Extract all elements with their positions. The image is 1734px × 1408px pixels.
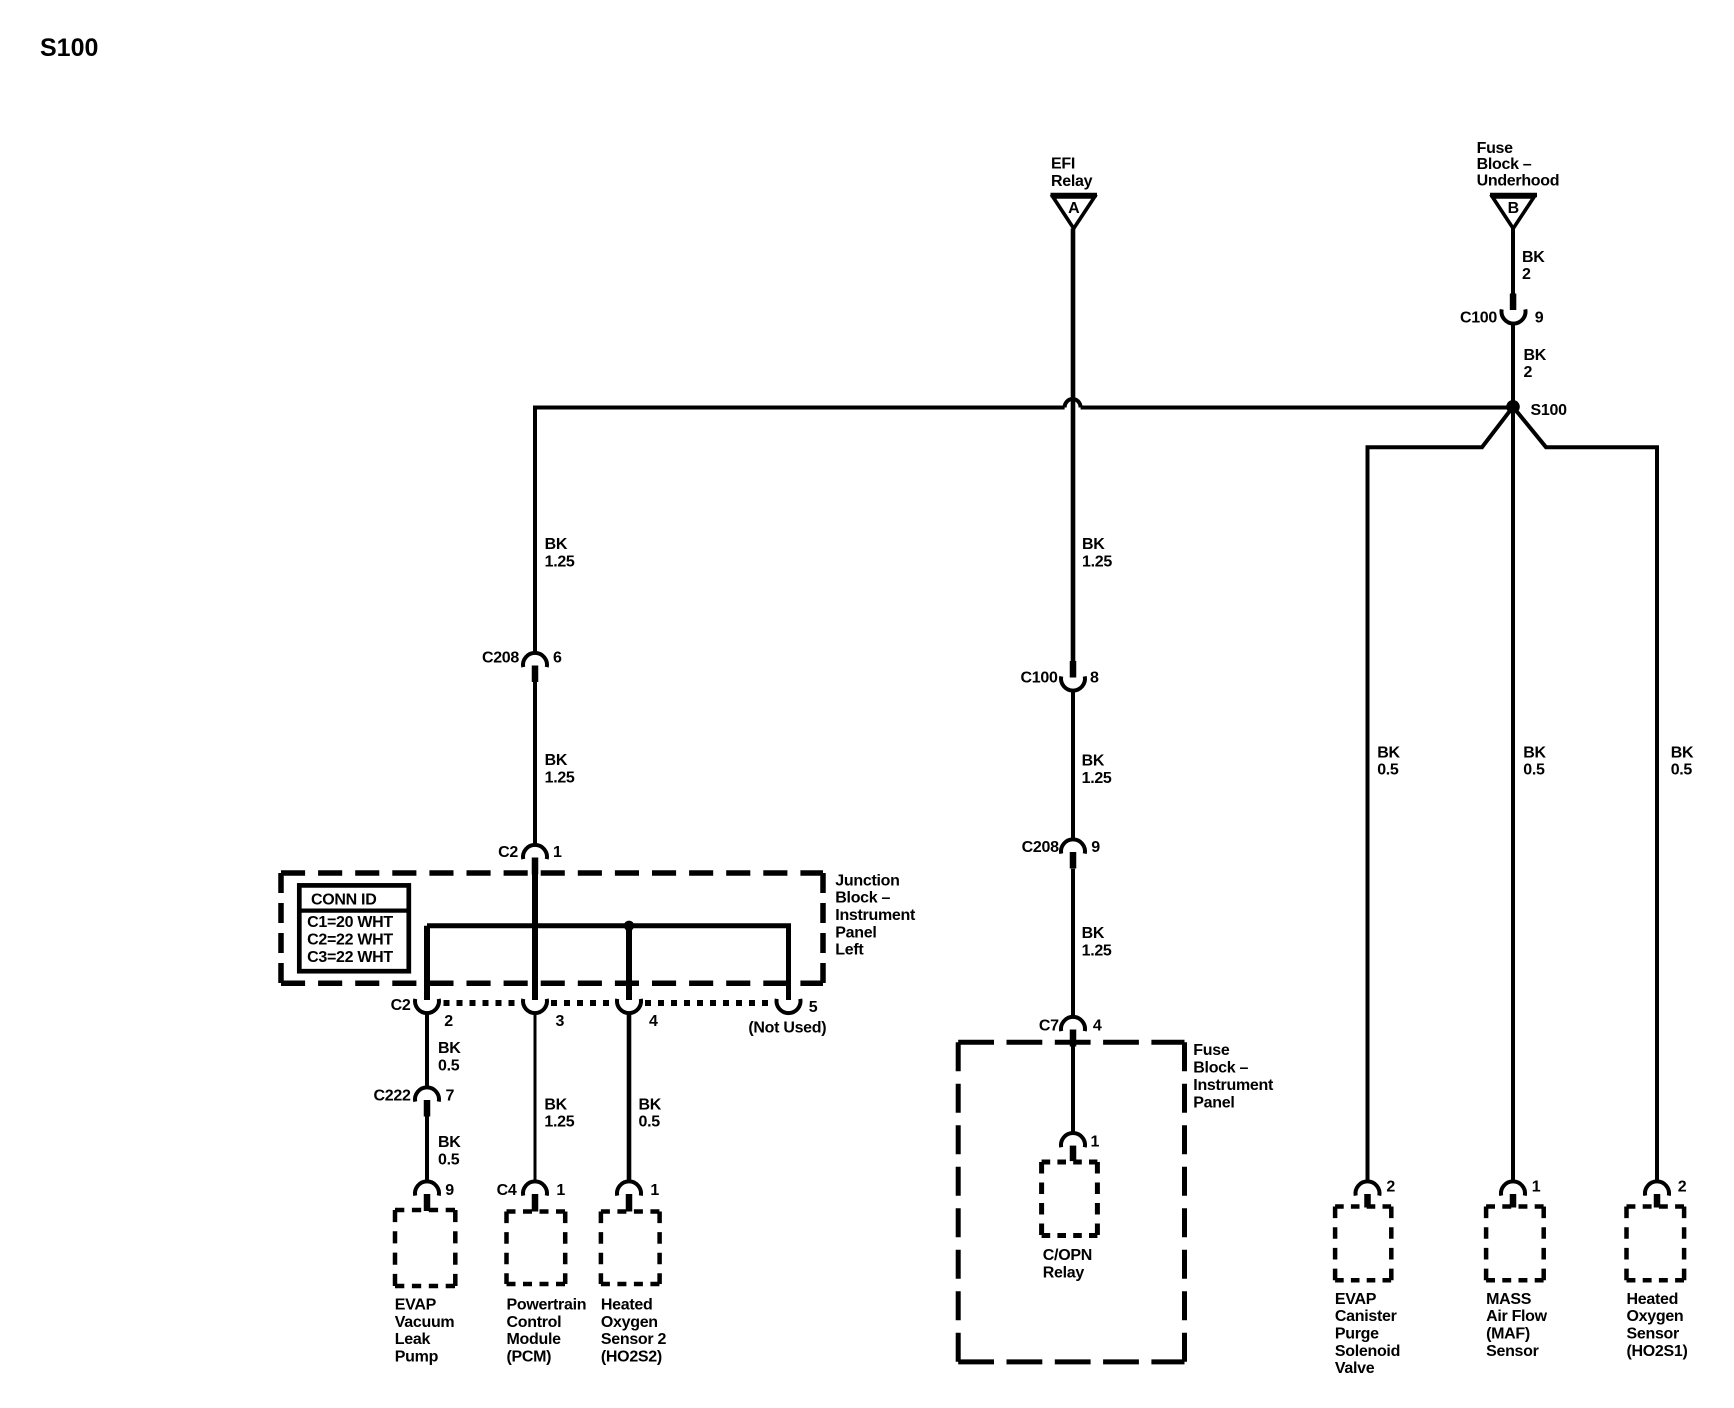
ground symbol A (EFI Relay) xyxy=(1051,195,1098,229)
svg-text:BK: BK xyxy=(438,1134,461,1151)
svg-text:Oxygen: Oxygen xyxy=(1627,1308,1684,1325)
component box HO2S2 xyxy=(601,1212,660,1285)
connector C208 pin 6 xyxy=(482,650,562,683)
svg-text:BK: BK xyxy=(1671,744,1694,761)
wire C222-7 to EVAP pump pin 9 xyxy=(425,1117,429,1183)
connector C2 pin 3 xyxy=(523,999,547,1013)
fuse block instrument panel dashed box xyxy=(958,1042,1184,1362)
svg-text:0.5: 0.5 xyxy=(438,1151,460,1168)
wire junction block internal bus xyxy=(427,926,789,1000)
component box EVAP canister purge solenoid valve xyxy=(1335,1207,1391,1281)
label BK 2 xyxy=(1524,347,1547,381)
wire S100 left diagonal branch to EVAP canister purge valve xyxy=(1368,407,1514,1182)
label BK 0.5 xyxy=(639,1096,662,1130)
connector C2 pin 2 xyxy=(415,999,439,1013)
wire pin 4 to HO2S2 pin 1 xyxy=(627,1013,632,1182)
svg-text:C100: C100 xyxy=(1460,310,1497,327)
svg-text:Fuse: Fuse xyxy=(1477,140,1514,157)
svg-text:S100: S100 xyxy=(1531,402,1568,419)
svg-text:BK: BK xyxy=(545,752,568,769)
label BK 1.25 (left branch lower) xyxy=(545,752,575,786)
svg-text:1.25: 1.25 xyxy=(1082,942,1112,959)
component box MAF sensor xyxy=(1486,1207,1544,1281)
svg-text:5: 5 xyxy=(809,999,818,1016)
svg-text:1.25: 1.25 xyxy=(1082,770,1112,787)
svg-text:3: 3 xyxy=(556,1013,565,1030)
svg-text:Sensor: Sensor xyxy=(1627,1326,1680,1343)
label BK 0.5 xyxy=(438,1134,461,1168)
label C/OPN Relay xyxy=(1043,1247,1092,1281)
junction dot on bus at pin 4 xyxy=(624,921,634,931)
svg-text:1.25: 1.25 xyxy=(1082,553,1112,570)
svg-text:C3=22 WHT: C3=22 WHT xyxy=(307,949,393,966)
label MASS Air Flow (MAF) Sensor xyxy=(1486,1291,1548,1360)
svg-text:Relay: Relay xyxy=(1043,1264,1085,1281)
wire EFI relay vertical xyxy=(1071,229,1076,662)
label EVAP Vacuum Leak Pump xyxy=(395,1297,455,1366)
svg-text:Fuse: Fuse xyxy=(1193,1042,1230,1059)
svg-text:BK: BK xyxy=(438,1040,461,1057)
svg-text:Panel: Panel xyxy=(835,924,876,941)
svg-text:0.5: 0.5 xyxy=(1377,762,1399,779)
svg-text:1.25: 1.25 xyxy=(544,1114,574,1131)
junction block dashed box xyxy=(281,873,823,983)
connector C4 pin 1 (PCM) xyxy=(497,1181,566,1211)
svg-text:0.5: 0.5 xyxy=(639,1114,661,1131)
label Fuse Block - Instrument Panel xyxy=(1193,1042,1274,1112)
svg-text:Block –: Block – xyxy=(1477,156,1532,173)
wire S100 right diagonal branch to HO2S1 xyxy=(1513,407,1657,1182)
svg-text:BK: BK xyxy=(1524,347,1547,364)
svg-text:0.5: 0.5 xyxy=(1671,762,1693,779)
connector C100 pin 8 xyxy=(1021,661,1099,691)
svg-text:BK: BK xyxy=(1377,744,1400,761)
svg-text:BK: BK xyxy=(545,536,568,553)
label BK 0.5 (EVAP canister branch) xyxy=(1377,744,1400,778)
connector C2 pin 4 xyxy=(617,999,641,1013)
svg-text:C100: C100 xyxy=(1021,670,1058,687)
svg-text:C/OPN: C/OPN xyxy=(1043,1247,1092,1264)
svg-text:Block –: Block – xyxy=(1193,1059,1248,1076)
label BK 0.5 xyxy=(438,1040,461,1074)
wire pin 3 to C4-1 xyxy=(534,1013,537,1182)
svg-text:1.25: 1.25 xyxy=(545,553,575,570)
component box EVAP vacuum leak pump xyxy=(395,1210,455,1286)
connector C208 pin 9 xyxy=(1022,839,1101,869)
wire C208-9 to C7-4 xyxy=(1071,869,1075,1018)
component box C/OPN relay xyxy=(1042,1162,1098,1236)
svg-text:C208: C208 xyxy=(1022,839,1059,856)
wire main horizontal left segment xyxy=(535,408,1065,653)
svg-text:2: 2 xyxy=(1522,266,1531,283)
wire crossover hop at EFI wire xyxy=(1065,399,1081,408)
svg-text:B: B xyxy=(1508,200,1519,217)
svg-text:4: 4 xyxy=(1093,1018,1102,1035)
svg-text:Panel: Panel xyxy=(1193,1095,1234,1112)
svg-text:Junction: Junction xyxy=(835,872,899,889)
svg-text:9: 9 xyxy=(445,1182,454,1199)
connector row C2 dotted line xyxy=(444,1000,773,1006)
svg-text:Instrument: Instrument xyxy=(1193,1077,1274,1094)
connector pin 2 (HO2S1) xyxy=(1645,1179,1687,1208)
svg-text:2: 2 xyxy=(1386,1179,1395,1196)
svg-text:Underhood: Underhood xyxy=(1477,173,1560,190)
svg-text:MASS: MASS xyxy=(1486,1291,1532,1308)
connector pin 9 (EVAP vacuum leak pump) xyxy=(415,1181,454,1211)
component box HO2S1 xyxy=(1627,1207,1685,1281)
label BK 1.25 (middle branch lower) xyxy=(1082,925,1112,959)
connector pin 1 (HO2S2) xyxy=(617,1181,659,1211)
svg-text:C2: C2 xyxy=(391,997,411,1014)
svg-text:Module: Module xyxy=(507,1331,562,1348)
svg-text:Sensor: Sensor xyxy=(1486,1343,1539,1360)
connector pin 2 (EVAP canister purge solenoid valve) xyxy=(1356,1179,1396,1208)
label Heated Oxygen Sensor (HO2S1) xyxy=(1627,1291,1688,1360)
svg-text:C222: C222 xyxy=(374,1088,411,1105)
svg-text:9: 9 xyxy=(1091,839,1100,856)
svg-text:Oxygen: Oxygen xyxy=(601,1314,658,1331)
svg-text:Control: Control xyxy=(507,1314,562,1331)
svg-text:S100: S100 xyxy=(40,34,98,62)
wire drop to pin 2 xyxy=(424,926,430,1000)
svg-text:CONN ID: CONN ID xyxy=(311,892,376,909)
component box PCM xyxy=(507,1212,566,1285)
svg-text:4: 4 xyxy=(649,1013,658,1030)
svg-text:Leak: Leak xyxy=(395,1331,431,1348)
label BK 1.25 (left branch upper) xyxy=(545,536,575,570)
label BK 0.5 (HO2S1 branch) xyxy=(1671,744,1694,778)
svg-text:Relay: Relay xyxy=(1051,173,1093,190)
wire C7-4 into fuse block to relay pin 1 xyxy=(1071,1047,1075,1134)
svg-text:Block –: Block – xyxy=(835,890,890,907)
svg-text:Valve: Valve xyxy=(1335,1360,1375,1377)
svg-text:Heated: Heated xyxy=(601,1297,653,1314)
svg-text:9: 9 xyxy=(1535,310,1544,327)
label BK 1.25 (middle branch mid) xyxy=(1082,753,1112,787)
connector pin 1 (MAF sensor) xyxy=(1501,1179,1541,1208)
wire C208-6 to C2-1 xyxy=(533,682,537,845)
svg-text:2: 2 xyxy=(1524,364,1533,381)
svg-text:C4: C4 xyxy=(497,1182,517,1199)
svg-text:Sensor 2: Sensor 2 xyxy=(601,1331,667,1348)
svg-text:EVAP: EVAP xyxy=(1335,1291,1377,1308)
connector C222 pin 7 xyxy=(374,1087,455,1116)
svg-text:Air Flow: Air Flow xyxy=(1486,1308,1548,1325)
connector pin 1 (C/OPN relay) xyxy=(1061,1133,1100,1161)
svg-text:C7: C7 xyxy=(1039,1018,1059,1035)
svg-text:Instrument: Instrument xyxy=(835,907,916,924)
label BK 0.5 (MAF branch) xyxy=(1523,744,1546,778)
label EVAP Canister Purge Solenoid Valve xyxy=(1335,1291,1400,1377)
label Junction Block - Instrument Panel Left xyxy=(835,872,916,958)
svg-text:C2=22 WHT: C2=22 WHT xyxy=(307,932,393,949)
wire pin 2 to C222-7 xyxy=(425,1013,429,1088)
svg-text:(Not Used): (Not Used) xyxy=(748,1020,826,1037)
svg-text:1: 1 xyxy=(556,1182,565,1199)
svg-text:BK: BK xyxy=(639,1096,662,1113)
svg-text:0.5: 0.5 xyxy=(438,1057,460,1074)
wire C2-1 trunk into junction block xyxy=(532,874,538,1000)
svg-text:BK: BK xyxy=(1082,536,1105,553)
svg-text:2: 2 xyxy=(444,1013,453,1030)
label BK 1.25 xyxy=(544,1096,574,1130)
label BK 2 xyxy=(1522,249,1545,283)
CONN ID table xyxy=(299,885,409,971)
svg-text:(PCM): (PCM) xyxy=(507,1348,552,1365)
svg-text:Pump: Pump xyxy=(395,1348,439,1365)
svg-text:BK: BK xyxy=(544,1096,567,1113)
label Powertrain Control Module (PCM) xyxy=(507,1297,587,1366)
svg-text:2: 2 xyxy=(1678,1179,1687,1196)
connector C7 pin 4 xyxy=(1039,1017,1102,1047)
svg-text:Powertrain: Powertrain xyxy=(507,1297,587,1314)
wire C100-8 to C208-9 xyxy=(1071,690,1075,840)
svg-text:A: A xyxy=(1068,200,1080,217)
svg-text:1: 1 xyxy=(650,1182,659,1199)
svg-text:6: 6 xyxy=(553,650,562,667)
svg-text:0.5: 0.5 xyxy=(1523,762,1545,779)
svg-text:C1=20 WHT: C1=20 WHT xyxy=(307,914,393,931)
ground symbol B (Fuse Block Underhood) xyxy=(1490,195,1537,229)
wire main horizontal right segment xyxy=(1081,406,1513,410)
svg-text:1: 1 xyxy=(1091,1134,1100,1151)
svg-text:7: 7 xyxy=(446,1088,455,1105)
svg-text:Left: Left xyxy=(835,942,864,959)
svg-text:BK: BK xyxy=(1522,249,1545,266)
svg-text:EFI: EFI xyxy=(1051,156,1075,173)
label BK 1.25 (middle branch upper) xyxy=(1082,536,1112,570)
svg-text:C208: C208 xyxy=(482,650,519,667)
label Fuse Block - Underhood xyxy=(1477,140,1560,190)
splice S100 xyxy=(1506,400,1520,414)
svg-text:BK: BK xyxy=(1523,744,1546,761)
wire C100-9 to S100 xyxy=(1511,323,1515,402)
connector C2 pin 5 (not used) xyxy=(777,999,801,1013)
svg-text:Purge: Purge xyxy=(1335,1326,1379,1343)
connector C2 pin 1 xyxy=(498,844,562,875)
svg-text:1: 1 xyxy=(553,844,562,861)
svg-text:Canister: Canister xyxy=(1335,1308,1397,1325)
connector C100 pin 9 xyxy=(1460,294,1544,327)
svg-text:(HO2S1): (HO2S1) xyxy=(1627,1343,1688,1360)
label EFI Relay xyxy=(1051,156,1093,190)
svg-text:(HO2S2): (HO2S2) xyxy=(601,1348,662,1365)
svg-text:C2: C2 xyxy=(498,844,518,861)
wire drop to pin 4 xyxy=(626,926,632,1000)
svg-text:Solenoid: Solenoid xyxy=(1335,1343,1400,1360)
wire B to C100-9 xyxy=(1511,229,1515,295)
svg-text:BK: BK xyxy=(1082,925,1105,942)
svg-text:1: 1 xyxy=(1532,1179,1541,1196)
svg-text:1.25: 1.25 xyxy=(545,769,575,786)
wire S100 straight down branch to MAF sensor xyxy=(1511,407,1515,1182)
svg-text:BK: BK xyxy=(1082,753,1105,770)
svg-text:8: 8 xyxy=(1090,670,1099,687)
svg-text:EVAP: EVAP xyxy=(395,1297,437,1314)
svg-text:Heated: Heated xyxy=(1627,1291,1679,1308)
svg-text:(MAF): (MAF) xyxy=(1486,1326,1530,1343)
label Heated Oxygen Sensor 2 (HO2S2) xyxy=(601,1297,667,1366)
svg-text:Vacuum: Vacuum xyxy=(395,1314,455,1331)
